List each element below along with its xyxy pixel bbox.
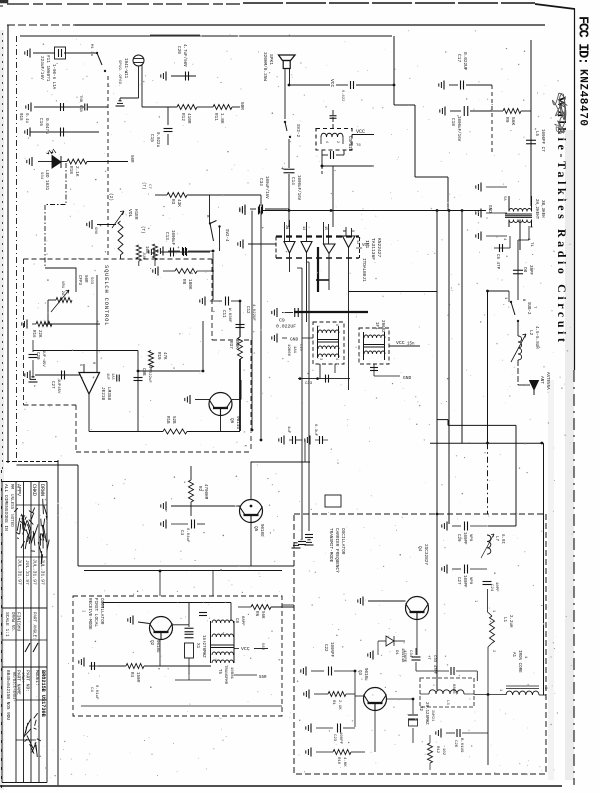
svg-text:1000uF: 1000uF bbox=[170, 230, 174, 246]
svg-text:50K: 50K bbox=[234, 341, 239, 349]
title block bottom signature bbox=[24, 713, 41, 757]
wire SV2-4 down bbox=[210, 195, 220, 300]
wire y462 bbox=[251, 440, 310, 462]
svg-text:100PF: 100PF bbox=[462, 532, 466, 545]
dashed box mic area right edge bbox=[107, 76, 109, 258]
capacitor C15 0.022u bbox=[149, 107, 173, 148]
title block col1 code2 bbox=[11, 672, 16, 702]
svg-text:150R: 150R bbox=[135, 672, 139, 683]
inductor L1 2.2uH bbox=[488, 589, 513, 658]
svg-text:1: 1 bbox=[315, 325, 319, 327]
svg-text:L7: L7 bbox=[494, 536, 498, 542]
label #11 1N6071 bbox=[45, 55, 50, 82]
svg-text:C24: C24 bbox=[489, 584, 493, 592]
T1 grounds bbox=[476, 183, 507, 241]
pin label 2 bbox=[528, 226, 532, 229]
svg-text:4: 4 bbox=[334, 358, 338, 360]
svg-text:1000uF/16V: 1000uF/16V bbox=[456, 116, 461, 142]
svg-text:100NPF: 100NPF bbox=[329, 642, 333, 658]
svg-text:50R: 50R bbox=[239, 102, 244, 110]
IC1 dashed box bbox=[276, 237, 360, 259]
IC1 buffer triangle 4 bbox=[343, 236, 356, 248]
led to VR1 dashdot bbox=[45, 163, 66, 268]
svg-text:GND: GND bbox=[487, 205, 492, 213]
title block MODEL text bbox=[34, 670, 46, 717]
svg-text:LM358: LM358 bbox=[106, 387, 111, 401]
svg-text:T1: T1 bbox=[529, 242, 533, 247]
label row2 a bbox=[18, 113, 28, 124]
label VR1 bbox=[60, 275, 93, 296]
label T4 29682 bbox=[374, 320, 384, 333]
wire switch stub bbox=[488, 291, 510, 302]
wire opamp output down bbox=[88, 394, 90, 432]
svg-text:C27: C27 bbox=[456, 577, 460, 585]
transistor Q3 9018G bbox=[357, 668, 387, 711]
svg-text:C8: C8 bbox=[234, 618, 238, 624]
capacitor C45 bbox=[321, 150, 344, 167]
title block PART NAME bbox=[16, 670, 25, 695]
svg-text:2SC3282Y: 2SC3282Y bbox=[423, 544, 428, 565]
svg-text:52B: 52B bbox=[171, 416, 175, 424]
wire rx to tx link bbox=[282, 604, 294, 606]
wire X1 col bbox=[175, 645, 211, 680]
resistor R12tx 102 bbox=[428, 735, 446, 770]
capacitor C16 0.047u bbox=[25, 118, 64, 137]
label ANT ANTENNA bbox=[539, 372, 549, 390]
resistor R6 56K bbox=[238, 605, 294, 620]
left page border bbox=[3, 25, 9, 470]
switch SV1 bbox=[89, 44, 106, 72]
dash line above table bbox=[6, 461, 58, 463]
svg-text:KN22427: KN22427 bbox=[376, 238, 382, 258]
svg-text:OSCILLATOR: OSCILLATOR bbox=[99, 598, 104, 625]
capacitor C2 4.7uF (boxed) bbox=[55, 47, 66, 59]
svg-text:GND: GND bbox=[403, 375, 412, 381]
capacitor C7 1000PF bbox=[526, 129, 544, 152]
wire speaker left down bbox=[284, 69, 286, 120]
svg-text:BB40=04215B NO5 9DU: BB40=04215B NO5 9DU bbox=[5, 670, 10, 720]
svg-text:0.022u: 0.022u bbox=[155, 132, 159, 148]
svg-text:R11: R11 bbox=[213, 113, 218, 121]
wire speaker line to x394 bbox=[336, 81, 394, 102]
L3 dashed box bbox=[420, 678, 474, 707]
op-amp U2 LM358 pointing down bbox=[78, 362, 100, 394]
svg-text:KNZ48470: KNZ48470 bbox=[577, 69, 589, 126]
right page border upper bbox=[574, 9, 576, 370]
long bus wire y210 bbox=[240, 206, 486, 215]
volume pot VR bbox=[112, 211, 124, 255]
cap at bottom of x309 bbox=[305, 535, 314, 546]
wire D1 left bbox=[368, 641, 378, 660]
long vertical x309 bbox=[307, 262, 309, 531]
svg-text:2.2uH: 2.2uH bbox=[508, 615, 512, 628]
svg-text:APPV: APPV bbox=[16, 484, 22, 496]
label SPK1 bbox=[262, 52, 274, 81]
resistor R11 1.8K bbox=[197, 105, 232, 124]
svg-text:100PF: 100PF bbox=[338, 732, 342, 745]
svg-text:SPK1: SPK1 bbox=[268, 54, 274, 65]
capacitor C30 0.022uF bbox=[134, 351, 152, 433]
svg-text:12: 12 bbox=[355, 240, 359, 244]
svg-text:-: - bbox=[81, 376, 84, 381]
svg-text:R3: R3 bbox=[170, 199, 175, 205]
corner wire y424 bbox=[437, 420, 516, 526]
svg-text:1000PF C7: 1000PF C7 bbox=[540, 129, 544, 152]
title block PART NO bbox=[25, 670, 31, 692]
resistor R4 150R bbox=[98, 664, 211, 683]
svg-text:H1ER: H1ER bbox=[133, 209, 138, 220]
wire C16 line bbox=[30, 131, 99, 133]
pin labels T iron bbox=[498, 687, 547, 691]
cap below T2 bbox=[305, 375, 329, 386]
svg-text:15: 15 bbox=[323, 226, 327, 230]
scan shading band left bbox=[0, 30, 4, 790]
svg-text:T6: T6 bbox=[356, 144, 361, 148]
IC1 pin stubs bottom bbox=[290, 248, 349, 323]
title block SCALE bbox=[4, 612, 14, 637]
svg-text:FIRST LOCAL: FIRST LOCAL bbox=[93, 598, 98, 627]
svg-text:13WH: 13WH bbox=[20, 672, 24, 682]
IC1 bold internal wire bbox=[316, 247, 329, 292]
capacitor C29tx 100PF bbox=[442, 522, 487, 546]
svg-text:X1: X1 bbox=[195, 643, 200, 649]
label 50R near R18 bbox=[129, 155, 133, 163]
wire Q5 base bbox=[171, 506, 241, 516]
svg-text:C20: C20 bbox=[176, 46, 181, 54]
svg-text:R1B: R1B bbox=[165, 416, 169, 424]
svg-text:0.04uF: 0.04uF bbox=[185, 528, 189, 543]
switch SV2-4 bbox=[205, 215, 228, 242]
svg-text:SQUELCH CONTROL: SQUELCH CONTROL bbox=[103, 265, 109, 326]
mic ground bbox=[116, 66, 139, 106]
transformer T2 dashed box bbox=[313, 322, 344, 364]
title block header DRWN bbox=[39, 484, 45, 496]
svg-text:PART NO:: PART NO: bbox=[25, 670, 31, 692]
IC1 pin stubs top bbox=[285, 220, 352, 244]
ground Q6 base bbox=[185, 395, 210, 404]
svg-text:1941-W11: 1941-W11 bbox=[123, 58, 127, 79]
svg-text:9018G: 9018G bbox=[259, 524, 263, 537]
resistor R19 47K bbox=[149, 351, 167, 372]
svg-text:2WM21: 2WM21 bbox=[430, 710, 434, 722]
label LED1 bbox=[39, 170, 48, 191]
vcc stub T5 bbox=[234, 643, 268, 652]
svg-text:Q3: Q3 bbox=[357, 670, 361, 676]
svg-text:56R: 56R bbox=[260, 643, 264, 651]
wire Q3 to X2 bbox=[386, 699, 413, 710]
title block col1 long code bbox=[5, 670, 10, 720]
diode D1 1N4148 bbox=[378, 636, 405, 663]
svg-text:50R: 50R bbox=[129, 155, 133, 163]
svg-text:10881: 10881 bbox=[229, 667, 233, 680]
svg-text:10PF: 10PF bbox=[494, 582, 498, 592]
wire inside rx box bottom bbox=[81, 705, 282, 707]
capacitor C? below T1 bbox=[494, 236, 510, 270]
svg-text:MODEL:: MODEL: bbox=[34, 670, 39, 686]
svg-text:915: 915 bbox=[18, 113, 22, 121]
svg-text:29682: 29682 bbox=[380, 320, 384, 333]
resistor R37 50K bbox=[228, 301, 243, 359]
wire T1 to antenna chain bbox=[518, 226, 529, 300]
label R18 2.1K bbox=[68, 166, 79, 177]
inner frame top line bbox=[20, 35, 392, 36]
resistor R10 4.8K bbox=[306, 748, 365, 768]
resistor R18 2.1K bbox=[61, 159, 128, 164]
svg-text:DRWN: DRWN bbox=[39, 484, 45, 496]
label GND T1 bbox=[487, 205, 492, 213]
svg-text:C3B: C3B bbox=[141, 368, 145, 376]
svg-text:FCC ID:: FCC ID: bbox=[575, 16, 590, 65]
svg-text:6886: 6886 bbox=[451, 684, 455, 694]
resistor R16 22K bbox=[22, 320, 52, 339]
tx dashed box bbox=[294, 514, 546, 774]
label SQUELCH CONTROL bbox=[103, 265, 109, 326]
wire Q4 emitter bbox=[405, 619, 417, 655]
wire Q6 collector bbox=[232, 380, 241, 400]
label 19660 left of T2 bbox=[286, 344, 302, 357]
title text Walkie-Talkies Radio Circuit bbox=[555, 96, 569, 342]
svg-text:C23: C23 bbox=[332, 734, 336, 742]
bottom page border bbox=[0, 785, 562, 787]
IC1 buffer triangle 2 bbox=[301, 242, 312, 253]
right page border lower bbox=[573, 370, 575, 785]
wire top caps row1 bbox=[33, 52, 96, 54]
wire rxbox to oscbox bbox=[160, 571, 213, 596]
title block header APPV bbox=[16, 484, 22, 496]
thick wire R37 down bbox=[239, 359, 241, 431]
wire x437 inside tx bbox=[436, 514, 438, 690]
switch SV3-2 bbox=[503, 297, 536, 322]
svg-text:0.022uF: 0.022uF bbox=[147, 366, 151, 383]
svg-text:0.4u: 0.4u bbox=[24, 113, 28, 124]
svg-text:VCC: VCC bbox=[362, 244, 370, 248]
svg-text:100uF/16V: 100uF/16V bbox=[264, 176, 269, 199]
svg-text:100PF: 100PF bbox=[462, 575, 466, 588]
transformer T5 bbox=[211, 620, 235, 685]
svg-text:L2: L2 bbox=[528, 330, 533, 336]
inductor L3 bbox=[420, 684, 474, 705]
battery box BTT dashes bbox=[316, 129, 352, 151]
svg-text:2.1K: 2.1K bbox=[74, 166, 79, 177]
svg-text:NPO: NPO bbox=[468, 577, 472, 585]
svg-text:C13: C13 bbox=[298, 344, 302, 352]
label R3 47K bbox=[170, 199, 181, 207]
capacitor C26 0.01U bbox=[436, 729, 488, 754]
squelch control dashed box bbox=[24, 259, 252, 452]
battery coil T6 bbox=[321, 133, 343, 144]
svg-text:5A: 5A bbox=[502, 196, 506, 201]
capacitor C29 1uF bbox=[29, 340, 46, 382]
title block date d bbox=[40, 559, 46, 585]
svg-text:934: 934 bbox=[39, 172, 43, 180]
svg-text:COPB1G: COPB1G bbox=[347, 136, 351, 152]
wire Q2 collector bbox=[173, 603, 190, 625]
svg-text:1UF: 1UF bbox=[105, 373, 109, 381]
svg-text:VR1 2A: VR1 2A bbox=[60, 281, 64, 296]
title block table grid bbox=[2, 482, 47, 783]
IC1 vcc labels bbox=[355, 240, 370, 248]
transistor Q2 9018G bbox=[149, 617, 173, 654]
LED1 with ground bbox=[27, 149, 61, 168]
svg-text:C9: C9 bbox=[279, 318, 285, 324]
svg-text:470PF: 470PF bbox=[402, 650, 406, 663]
svg-text:C22: C22 bbox=[323, 644, 327, 652]
capacitor C3 39PF bbox=[513, 265, 532, 276]
long vertical x261 bbox=[260, 211, 262, 441]
svg-text:50R: 50R bbox=[83, 275, 87, 283]
svg-text:47K: 47K bbox=[162, 352, 166, 360]
ground left of IC1 bbox=[238, 240, 276, 249]
svg-text:R12: R12 bbox=[435, 746, 439, 754]
label A1 IRON CORE bbox=[511, 650, 527, 673]
svg-text:LED 1031: LED 1031 bbox=[44, 170, 48, 191]
T2 bottom wires bbox=[298, 364, 350, 380]
capacitor C22 100NPF bbox=[301, 642, 355, 676]
svg-text:TRANSFMR: TRANSFMR bbox=[223, 665, 227, 685]
svg-text:JUL.31.97: JUL.31.97 bbox=[24, 560, 30, 585]
svg-text:6.8t: 6.8t bbox=[500, 534, 504, 545]
top left corner marks bbox=[0, 0, 8, 6]
capacitor C17 0.022UF bbox=[439, 52, 492, 90]
svg-text:R19: R19 bbox=[156, 352, 160, 360]
svg-text:19660: 19660 bbox=[286, 344, 290, 357]
svg-text:1uF: 1uF bbox=[286, 426, 290, 434]
wire speaker to VCC bbox=[290, 69, 331, 86]
svg-text:1-00-6 L1A: 1-00-6 L1A bbox=[51, 64, 55, 90]
svg-text:ANTENNA: ANTENNA bbox=[545, 372, 549, 390]
rx osc dashed box bbox=[73, 596, 282, 716]
svg-text:4700HM: 4700HM bbox=[203, 484, 207, 500]
svg-text:180K: 180K bbox=[187, 279, 192, 290]
capacitor C14 1000uF/16V bbox=[281, 139, 301, 227]
capacitor C12 bbox=[236, 304, 256, 328]
ground left of T2 bbox=[272, 334, 313, 343]
svg-text:JUL.31.97: JUL.31.97 bbox=[40, 559, 46, 585]
transformer T2 bbox=[315, 324, 339, 360]
long vertical x437 bbox=[436, 211, 438, 691]
dashed vertical x492 bbox=[491, 85, 493, 155]
scan shading band right bbox=[565, 130, 574, 780]
wire tx out right bbox=[430, 443, 544, 695]
svg-text:W.830F: W.830F bbox=[227, 308, 231, 323]
capacitor C4b 0.01uF bbox=[79, 658, 98, 701]
svg-text:Q5: Q5 bbox=[253, 526, 258, 532]
wire y166 right bbox=[322, 165, 374, 167]
svg-text:1.8K: 1.8K bbox=[219, 113, 224, 124]
capacitor C13 1000uF bbox=[149, 230, 210, 257]
ground at VOL bbox=[87, 220, 116, 235]
handwritten smudge near title bbox=[552, 93, 567, 134]
svg-text:C26: C26 bbox=[453, 740, 457, 748]
capacitor C11 bbox=[200, 297, 240, 324]
wire rx inner top bbox=[103, 603, 231, 622]
svg-text:6: 6 bbox=[334, 324, 338, 326]
svg-text:ITDALB0J1: ITDALB0J1 bbox=[361, 258, 366, 282]
right-of-table vertical line bbox=[57, 460, 59, 785]
svg-text:C29: C29 bbox=[35, 352, 39, 360]
inductor L2 adjustable bbox=[511, 321, 526, 362]
svg-text:SV2-2: SV2-2 bbox=[295, 124, 300, 138]
svg-text:C27: C27 bbox=[50, 381, 54, 389]
svg-text:4: 4 bbox=[324, 141, 328, 143]
label VCC speaker bbox=[329, 79, 335, 88]
svg-text:C29: C29 bbox=[456, 534, 460, 542]
svg-text:4.7uF/50V: 4.7uF/50V bbox=[182, 44, 187, 67]
svg-text:4.8K: 4.8K bbox=[342, 757, 346, 767]
svg-text:PART ANGLE:: PART ANGLE: bbox=[32, 612, 36, 640]
svg-text:ANT: ANT bbox=[539, 376, 544, 384]
svg-text:9018u: 9018u bbox=[363, 668, 367, 681]
crystal X2 bbox=[408, 702, 434, 743]
svg-text:0.022: 0.022 bbox=[340, 90, 344, 102]
label TNB 5TB bbox=[78, 95, 82, 112]
svg-text:1: 1 bbox=[498, 689, 502, 691]
wire L2 to antenna bbox=[518, 360, 530, 385]
svg-text:1000uF/16V: 1000uF/16V bbox=[296, 175, 301, 201]
resistor 10K vertical bbox=[144, 244, 158, 266]
svg-text:10K: 10K bbox=[144, 246, 148, 254]
ground Q2 top bbox=[128, 616, 150, 625]
svg-text:C16: C16 bbox=[38, 118, 43, 126]
svg-text:TNB 5TB: TNB 5TB bbox=[78, 95, 82, 112]
capacitor C34tx 470PF bbox=[402, 648, 421, 671]
wire L1 to L3 bbox=[474, 658, 506, 765]
svg-text:Q6: Q6 bbox=[229, 418, 234, 424]
long vertical x449 bbox=[448, 211, 450, 525]
switch SV2-2 bbox=[284, 121, 300, 138]
svg-text:+: + bbox=[177, 246, 180, 251]
svg-text:16.270MHZ: 16.270MHZ bbox=[201, 635, 205, 658]
transistor Q5 9018G bbox=[240, 500, 264, 538]
svg-text:+: + bbox=[281, 166, 284, 172]
svg-text:43K: 43K bbox=[176, 199, 181, 207]
ground cap row y251 bbox=[158, 247, 215, 256]
wire y371 bbox=[138, 370, 203, 372]
resistor below VOL bbox=[136, 245, 145, 266]
title text KNZ48470 part2 bbox=[577, 69, 589, 126]
svg-text:GND: GND bbox=[290, 337, 299, 343]
svg-text:SUB-2: SUB-2 bbox=[526, 302, 530, 315]
svg-text:R4: R4 bbox=[129, 672, 133, 678]
resistor R2 4700HM bbox=[189, 466, 208, 516]
ground Q4 base bbox=[358, 597, 406, 609]
long vertical x302 bbox=[297, 268, 302, 540]
wire opamp top bus bbox=[33, 350, 138, 352]
svg-text:TA31136F: TA31136F bbox=[370, 238, 376, 260]
label RECEIVE-MODE bbox=[87, 598, 104, 630]
svg-text:C15: C15 bbox=[149, 134, 154, 142]
capacitor C16a bbox=[26, 103, 64, 112]
transistor Q4 2SC3282Y bbox=[406, 544, 429, 620]
svg-text:55R: 55R bbox=[259, 676, 267, 680]
wire Q3 emitter bbox=[365, 710, 375, 752]
small cap right of opamp bbox=[105, 373, 119, 382]
label L2 4.5-5.5UH bbox=[528, 326, 538, 349]
svg-text:0.022UF: 0.022UF bbox=[462, 52, 467, 71]
svg-text:ALL DIMENSIONS IN: ALL DIMENSIONS IN bbox=[3, 484, 9, 531]
wire Q2 emitter bbox=[159, 639, 161, 666]
svg-text:R16: R16 bbox=[31, 330, 35, 338]
svg-text:0.022UF: 0.022UF bbox=[276, 324, 296, 330]
svg-text:0.01uF: 0.01uF bbox=[94, 685, 98, 700]
wire R12 R11 line bbox=[142, 106, 240, 108]
capacitor C27tx 100PF bbox=[442, 565, 487, 589]
title block date JUL.31.97 a bbox=[17, 559, 23, 585]
battery top stub bbox=[330, 110, 337, 128]
svg-text:102: 102 bbox=[441, 748, 445, 756]
label VCC right of T4 bbox=[389, 340, 420, 347]
wire x348 down bbox=[348, 292, 350, 390]
